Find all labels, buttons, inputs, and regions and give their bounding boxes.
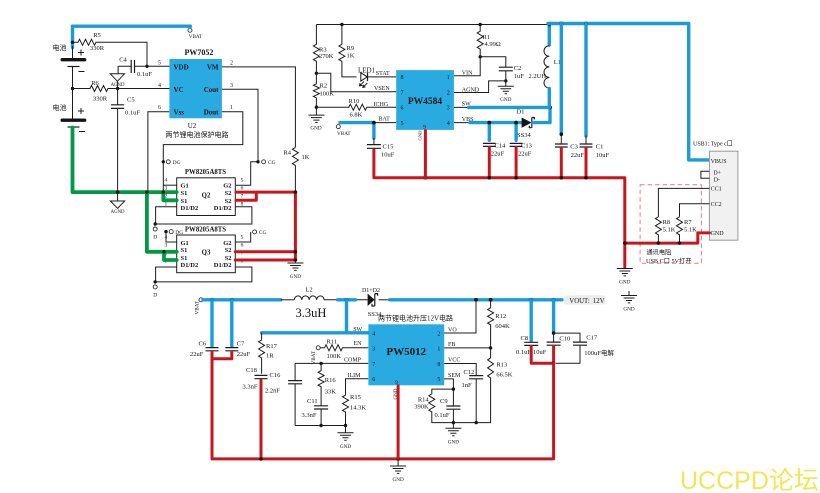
- svg-text:0.1uF: 0.1uF: [516, 349, 531, 356]
- svg-text:R17: R17: [266, 343, 278, 350]
- svg-text:VO: VO: [448, 328, 457, 334]
- svg-text:4: 4: [158, 83, 161, 89]
- svg-text:S2: S2: [225, 255, 232, 262]
- wire VIN pin: [454, 57, 480, 77]
- diode D1 SS34: [517, 106, 552, 140]
- node VOUT 12V: [564, 295, 606, 305]
- inductor L1: [529, 23, 562, 108]
- svg-text:VBAT: VBAT: [194, 300, 200, 314]
- svg-text:G1: G1: [181, 240, 189, 247]
- svg-text:2.2nF: 2.2nF: [265, 387, 280, 394]
- ground AGND (lower): [110, 193, 125, 216]
- ground GND (main bottom): [390, 459, 406, 483]
- svg-text:3.3nF: 3.3nF: [243, 383, 258, 390]
- svg-text:8: 8: [401, 75, 404, 81]
- svg-text:C3: C3: [570, 143, 578, 150]
- svg-text:7: 7: [372, 362, 375, 368]
- node VBAT (EN pull) + resistor R11: [311, 338, 368, 364]
- svg-text:10uF: 10uF: [533, 349, 547, 356]
- svg-text:R9: R9: [347, 45, 355, 52]
- capacitor C6: [190, 300, 219, 358]
- svg-text:GND: GND: [392, 477, 403, 483]
- wire BAT + node VBAT: [336, 116, 396, 144]
- svg-text:1: 1: [230, 105, 233, 111]
- svg-text:S1: S1: [181, 198, 188, 205]
- svg-text:270K: 270K: [319, 53, 334, 60]
- svg-text:5.1K: 5.1K: [663, 227, 676, 234]
- svg-text:FB: FB: [448, 342, 455, 348]
- resistor R17: [259, 333, 278, 374]
- svg-text:S1: S1: [181, 255, 188, 262]
- wire SEM + capacitor C9: [435, 373, 462, 424]
- svg-text:6: 6: [158, 105, 161, 111]
- wire Q2 S2 red: [236, 190, 297, 252]
- svg-text:C1: C1: [596, 143, 604, 150]
- wire SW pin: [454, 101, 550, 107]
- node DG (Q2): [162, 160, 181, 166]
- IC U1 PW4584: [396, 70, 454, 130]
- svg-text:604K: 604K: [495, 323, 510, 330]
- svg-text:R1: R1: [483, 34, 491, 41]
- wire Cout to CG: [222, 89, 258, 162]
- svg-text:U2: U2: [188, 122, 197, 130]
- ground GND (USB): [617, 269, 633, 286]
- wire VSEN: [316, 73, 396, 92]
- svg-text:1: 1: [437, 346, 440, 352]
- svg-text:10uF: 10uF: [381, 151, 395, 158]
- svg-text:G2: G2: [223, 240, 231, 247]
- IC U2 PW7052: [158, 48, 233, 130]
- svg-text:SS34: SS34: [517, 132, 531, 139]
- svg-text:C8: C8: [521, 335, 529, 342]
- svg-text:C14: C14: [495, 143, 507, 150]
- svg-text:G2: G2: [223, 183, 231, 190]
- svg-text:VC: VC: [174, 86, 184, 94]
- wire CC1 to R8: [658, 188, 709, 216]
- svg-text:3.3uH: 3.3uH: [296, 306, 327, 320]
- wire top-right VBUS blue: [548, 22, 709, 160]
- svg-text:PW8205A8TS: PW8205A8TS: [185, 226, 226, 233]
- svg-text:10uF: 10uF: [596, 152, 610, 159]
- svg-text:6: 6: [241, 243, 244, 249]
- wire Vss to battery negative: [148, 112, 170, 192]
- svg-text:电池: 电池: [53, 43, 67, 52]
- svg-text:USB1: Type c口: USB1: Type c口: [693, 141, 733, 148]
- svg-text:C12: C12: [464, 369, 475, 376]
- capacitor C7: [225, 300, 250, 358]
- svg-text:DG: DG: [173, 160, 181, 166]
- svg-text:GND: GND: [340, 444, 351, 450]
- svg-text:两节锂电池保护电路: 两节锂电池保护电路: [166, 130, 229, 139]
- svg-text:5.1K: 5.1K: [684, 227, 697, 234]
- svg-text:R15: R15: [350, 394, 361, 401]
- svg-text:LED1: LED1: [358, 67, 376, 75]
- resistor R14: [414, 389, 453, 423]
- svg-text:C2: C2: [514, 65, 522, 72]
- svg-text:USB C口 5V打开: USB C口 5V打开: [646, 257, 691, 265]
- svg-text:5: 5: [158, 61, 161, 67]
- svg-text:R16: R16: [325, 377, 337, 384]
- svg-text:VCC: VCC: [448, 358, 460, 364]
- battery BT2 电池: [53, 103, 87, 132]
- svg-text:22uF: 22uF: [190, 351, 204, 358]
- resistor R2: [313, 73, 334, 109]
- resistor R9: [339, 25, 357, 77]
- wire Q2 D1/D2 loop: [156, 207, 252, 224]
- svg-text:D-: D-: [714, 177, 720, 183]
- capacitor C17: [554, 333, 615, 363]
- svg-text:GND: GND: [623, 306, 634, 312]
- resistor R5: [71, 32, 170, 68]
- svg-text:VBUS: VBUS: [711, 159, 727, 165]
- svg-text:6: 6: [372, 377, 375, 383]
- wire Dout to DG: [163, 112, 243, 192]
- svg-text:R4: R4: [283, 150, 291, 157]
- svg-text:Vss: Vss: [174, 108, 185, 116]
- svg-text:R8: R8: [663, 219, 671, 226]
- resistor R12: [488, 300, 510, 348]
- svg-text:VOUT:: VOUT:: [569, 298, 590, 305]
- svg-text:1R: 1R: [266, 352, 274, 359]
- capacitor C2: [480, 57, 524, 83]
- svg-text:GND: GND: [619, 279, 630, 285]
- svg-text:330R: 330R: [93, 95, 108, 102]
- node VBAT (top left): [188, 24, 203, 40]
- wire D+/D- short bracket: [701, 171, 710, 178]
- svg-text:ICHG: ICHG: [374, 102, 389, 108]
- svg-text:D: D: [153, 292, 157, 298]
- svg-text:C9: C9: [440, 398, 448, 405]
- svg-text:6: 6: [241, 185, 244, 191]
- svg-text:7: 7: [241, 193, 244, 199]
- svg-text:1nF: 1nF: [462, 382, 473, 389]
- wire VO to output bus: [444, 302, 476, 334]
- wire PW4584 pin9 pad to ground red: [418, 130, 426, 178]
- ground GND (C9 node): [445, 423, 461, 446]
- svg-text:6: 6: [401, 106, 404, 112]
- svg-text:D1+D2: D1+D2: [362, 288, 380, 294]
- svg-text:SW: SW: [353, 327, 362, 333]
- LED LED1: [358, 67, 396, 88]
- svg-text:电池: 电池: [53, 103, 67, 112]
- wire output ground red: [531, 346, 555, 365]
- capacitor C8: [516, 300, 538, 356]
- svg-text:DG: DG: [175, 230, 183, 236]
- svg-text:VDD: VDD: [174, 64, 189, 72]
- svg-text:22uF: 22uF: [518, 150, 532, 157]
- svg-text:D1/D2: D1/D2: [181, 262, 199, 269]
- svg-text:AGND: AGND: [111, 83, 125, 88]
- wire charger ground bus red: [374, 147, 625, 243]
- capacitor C14: [483, 121, 506, 158]
- svg-text:330R: 330R: [90, 45, 105, 52]
- capacitor C3: [555, 24, 584, 160]
- svg-text:G1: G1: [181, 183, 189, 190]
- svg-text:C6: C6: [199, 341, 207, 348]
- svg-text:S1: S1: [181, 190, 188, 197]
- svg-text:390K: 390K: [414, 403, 429, 410]
- svg-text:0.1uF: 0.1uF: [137, 71, 152, 78]
- svg-text:S2: S2: [225, 247, 232, 254]
- capacitor C4: [118, 57, 152, 78]
- svg-text:14.3K: 14.3K: [350, 404, 366, 411]
- svg-text:SS34: SS34: [368, 311, 382, 318]
- svg-text:GND: GND: [711, 231, 725, 237]
- svg-text:0.1uF: 0.1uF: [125, 110, 140, 117]
- svg-text:4: 4: [447, 121, 450, 127]
- svg-text:R2: R2: [320, 83, 328, 90]
- wire VM to R4: [222, 67, 296, 147]
- capacitor C5: [111, 89, 140, 193]
- svg-text:D1/D2: D1/D2: [214, 205, 232, 212]
- svg-text:3: 3: [230, 83, 233, 89]
- svg-text:4: 4: [372, 331, 375, 337]
- svg-text:CC1: CC1: [711, 187, 722, 193]
- capacitor C1: [580, 24, 610, 160]
- svg-text:ILIM: ILIM: [348, 373, 362, 379]
- wire top VIN bus (black): [316, 23, 549, 26]
- svg-text:D1: D1: [517, 108, 525, 115]
- capacitor C18: [243, 367, 268, 391]
- svg-text:100K: 100K: [327, 353, 342, 360]
- svg-text:GND: GND: [500, 97, 511, 103]
- ground GND (below R2): [308, 107, 324, 131]
- ground GND (below C2): [498, 81, 514, 103]
- ground GND (floating net symbol): [621, 291, 637, 312]
- svg-text:C7: C7: [237, 341, 245, 348]
- svg-text:Dout: Dout: [204, 108, 219, 116]
- svg-text:5: 5: [401, 121, 404, 127]
- svg-text:SEM: SEM: [448, 373, 461, 379]
- svg-text:R13: R13: [496, 361, 507, 368]
- svg-text:GND: GND: [418, 130, 423, 141]
- wire USB GND red: [623, 233, 709, 267]
- resistor R8: [655, 217, 675, 243]
- wire PW5012 pin9 pad to ground red: [394, 386, 399, 459]
- svg-text:VM: VM: [207, 64, 219, 72]
- svg-text:1: 1: [447, 75, 450, 81]
- svg-text:12V: 12V: [593, 298, 605, 305]
- ground GND (comp network): [338, 426, 354, 450]
- svg-text:3: 3: [372, 346, 375, 352]
- capacitor C13: [510, 121, 532, 158]
- svg-text:6.8K: 6.8K: [350, 111, 363, 118]
- svg-text:PW7052: PW7052: [185, 48, 214, 57]
- svg-text:2: 2: [447, 90, 450, 96]
- svg-text:S2: S2: [225, 190, 232, 197]
- svg-text:VBAT: VBAT: [337, 131, 351, 137]
- IC U3 PW5012: [368, 324, 444, 386]
- wire battery negative green: [73, 128, 177, 261]
- svg-text:GND: GND: [394, 388, 399, 399]
- wire bottom ground bus red: [212, 352, 554, 460]
- svg-text:4.99Ω: 4.99Ω: [485, 41, 501, 48]
- wire boost input bus blue: [203, 298, 562, 302]
- svg-text:33K: 33K: [325, 388, 337, 395]
- svg-text:2.2UH: 2.2UH: [529, 73, 547, 80]
- svg-text:5: 5: [437, 377, 440, 383]
- node D (Q2): [153, 222, 157, 240]
- node VBAT (boost input): [194, 298, 203, 315]
- diode D1+D2 SS34: [362, 288, 382, 318]
- wire COMP: [295, 358, 368, 365]
- svg-text:PW4584: PW4584: [408, 97, 443, 107]
- svg-text:0.1uF: 0.1uF: [435, 412, 450, 419]
- svg-text:R6: R6: [91, 80, 99, 87]
- svg-text:C18: C18: [246, 367, 257, 374]
- svg-text:VBAT: VBAT: [311, 350, 317, 364]
- svg-text:L2: L2: [305, 287, 312, 294]
- svg-text:Q3: Q3: [202, 250, 211, 257]
- resistor R6: [71, 80, 170, 102]
- svg-text:CG: CG: [268, 160, 276, 166]
- wire ILIM + resistor R15: [343, 373, 369, 427]
- resistor R1: [477, 25, 501, 59]
- svg-text:1K: 1K: [302, 154, 310, 161]
- ground AGND (upper): [110, 66, 125, 88]
- node CG (Q2): [236, 160, 276, 185]
- svg-text:3: 3: [447, 106, 450, 112]
- wire CC2 to R7: [680, 204, 710, 217]
- wire Q3 D1/D2 loop: [156, 267, 252, 282]
- svg-text:R11: R11: [327, 338, 338, 345]
- svg-text:C16: C16: [270, 372, 282, 379]
- wire FB: [444, 342, 492, 349]
- svg-text:AGND: AGND: [111, 210, 125, 215]
- transistor Q3 PW8205A8TS: [164, 226, 243, 272]
- svg-text:D1/D2: D1/D2: [181, 205, 199, 212]
- resistor R13: [453, 348, 512, 424]
- svg-text:GND: GND: [448, 439, 459, 445]
- resistor R7: [677, 217, 698, 243]
- svg-text:R5: R5: [93, 32, 101, 39]
- node DG (Q3): [164, 230, 183, 242]
- node CG (Q3): [235, 230, 266, 242]
- svg-text:C10: C10: [559, 336, 570, 343]
- capacitor C10: [533, 300, 570, 356]
- wire VBS pin: [454, 117, 521, 123]
- svg-text:EN: EN: [354, 341, 363, 347]
- svg-text:D+: D+: [713, 171, 721, 177]
- wire VBAT blue (top left): [71, 26, 190, 58]
- svg-text:UCCPD论坛: UCCPD论坛: [680, 467, 819, 493]
- svg-text:3: 3: [164, 243, 167, 249]
- svg-text:C11: C11: [307, 398, 318, 405]
- svg-text:1uF: 1uF: [514, 73, 525, 80]
- resistor R4: [283, 147, 309, 192]
- capacitor C15: [367, 143, 395, 158]
- battery BT1 电池: [53, 43, 87, 72]
- svg-text:7: 7: [401, 90, 404, 96]
- svg-text:R10: R10: [349, 98, 360, 105]
- svg-text:C4: C4: [119, 57, 127, 64]
- svg-text:R7: R7: [684, 219, 692, 226]
- ground GND (below Q2/Q3 S2): [287, 258, 303, 280]
- svg-text:5: 5: [241, 178, 244, 184]
- svg-text:CG: CG: [259, 230, 267, 236]
- svg-text:GND: GND: [310, 125, 321, 131]
- svg-text:Cout: Cout: [204, 86, 219, 94]
- svg-text:22uF: 22uF: [491, 150, 505, 157]
- svg-text:CC2: CC2: [711, 202, 722, 208]
- svg-text:COMP: COMP: [344, 358, 362, 364]
- svg-text:2: 2: [230, 61, 233, 67]
- svg-text:C15: C15: [383, 143, 394, 150]
- svg-text:100uF电解: 100uF电解: [584, 348, 614, 357]
- capacitor C16: [265, 363, 302, 425]
- svg-text:D1/D2: D1/D2: [214, 262, 232, 269]
- inductor L2: [294, 287, 326, 320]
- svg-text:C17: C17: [586, 335, 598, 342]
- svg-text:2: 2: [437, 331, 440, 337]
- svg-text:1K: 1K: [347, 52, 355, 59]
- resistor R16: [318, 363, 336, 405]
- wire compensation bottom: [295, 425, 345, 427]
- transistor Q2 PW8205A8TS: [164, 169, 243, 216]
- node D (Q3): [153, 280, 157, 298]
- svg-text:PW8205A8TS: PW8205A8TS: [185, 169, 226, 176]
- svg-text:C5: C5: [127, 97, 135, 104]
- svg-text:VIN: VIN: [462, 71, 473, 77]
- svg-text:4: 4: [164, 178, 167, 184]
- connector USB1 Type-C: [693, 141, 738, 241]
- resistor R10: [316, 98, 396, 118]
- svg-text:S2: S2: [225, 198, 232, 205]
- svg-text:两节锂电池升压12V电路: 两节锂电池升压12V电路: [378, 314, 453, 323]
- capacitor C11: [302, 398, 329, 427]
- wire Q2 G1 stub: [163, 184, 176, 186]
- svg-text:S1: S1: [181, 247, 188, 254]
- svg-text:BAT: BAT: [379, 116, 391, 122]
- svg-text:R12: R12: [495, 313, 506, 320]
- svg-text:22uF: 22uF: [571, 152, 585, 159]
- resistor R3: [313, 25, 333, 76]
- svg-text:通讯电阻: 通讯电阻: [647, 248, 672, 256]
- svg-text:C13: C13: [521, 143, 532, 150]
- svg-text:STAT: STAT: [376, 71, 390, 77]
- svg-text:PW5012: PW5012: [386, 346, 426, 358]
- svg-text:3.3nF: 3.3nF: [302, 412, 317, 419]
- svg-text:Q2: Q2: [202, 192, 211, 199]
- svg-text:D: D: [153, 235, 157, 241]
- wire SW blue (boost): [262, 300, 369, 333]
- svg-text:8: 8: [437, 362, 440, 368]
- svg-text:22uF: 22uF: [237, 351, 251, 358]
- svg-text:VBAT: VBAT: [189, 34, 203, 40]
- svg-text:66.5K: 66.5K: [496, 372, 512, 379]
- wire Q3 S2 red to GND: [235, 250, 297, 262]
- svg-text:VSEN: VSEN: [374, 86, 390, 92]
- svg-text:AGND: AGND: [462, 87, 480, 93]
- wire AGND pin: [454, 81, 506, 93]
- wire VCC + capacitor C12: [444, 358, 483, 423]
- wire battery link: [72, 67, 74, 119]
- svg-text:GND: GND: [290, 274, 301, 280]
- box 通讯电阻 dashed: [640, 185, 701, 265]
- svg-text:5: 5: [241, 235, 244, 241]
